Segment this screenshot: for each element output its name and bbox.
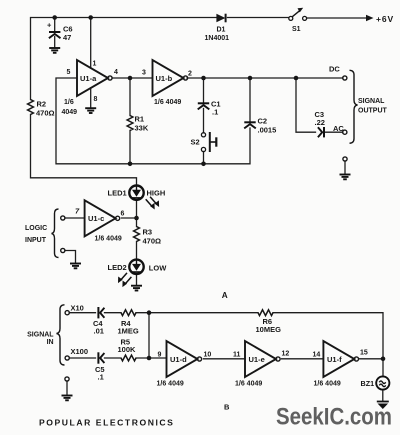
svg-text:INPUT: INPUT bbox=[25, 237, 47, 244]
wire: U1-a input feedback bbox=[56, 78, 130, 164]
svg-text:100K: 100K bbox=[118, 345, 137, 354]
resistor R4 bbox=[118, 310, 139, 336]
svg-text:10MEG: 10MEG bbox=[256, 325, 282, 334]
svg-text:1N4001: 1N4001 bbox=[205, 35, 230, 42]
node: C6 tap on rail bbox=[52, 15, 57, 20]
DC terminal bbox=[329, 65, 347, 81]
op-amp U1-e (inverter) bbox=[233, 341, 289, 388]
capacitor C5 bbox=[95, 352, 105, 381]
svg-text:LED2: LED2 bbox=[108, 263, 127, 272]
signal-in ground terminal bbox=[65, 377, 69, 381]
svg-text:A: A bbox=[222, 291, 228, 300]
switch S2 (pushbutton) bbox=[191, 132, 217, 152]
wire: rail diode-to-S1 segment bbox=[228, 17, 289, 19]
svg-text:LOW: LOW bbox=[149, 263, 167, 272]
wire: pin8 to ground bbox=[90, 88, 92, 108]
node: S2 bottom bbox=[201, 162, 206, 167]
svg-text:1/6 4049: 1/6 4049 bbox=[314, 381, 341, 388]
wire: U1-e out to U1-f bbox=[282, 358, 324, 360]
op-amp U1-b (inverter) bbox=[142, 60, 192, 106]
svg-text:R2: R2 bbox=[37, 100, 47, 109]
svg-text:1/6 4049: 1/6 4049 bbox=[154, 99, 181, 106]
wire: bottom node line R1 to S2 to C2 bbox=[130, 128, 250, 164]
ground (C6) bbox=[49, 48, 60, 53]
wire: U1-a out to U1-b in bbox=[112, 77, 153, 79]
wire: R1 column bbox=[129, 78, 131, 116]
node: AC tap bbox=[294, 76, 299, 81]
wire: node to R3 bbox=[136, 218, 138, 227]
op-amp U1-d (inverter) bbox=[157, 341, 212, 388]
svg-text:SeekIC.com: SeekIC.com bbox=[276, 404, 392, 431]
svg-text:2: 2 bbox=[188, 71, 192, 78]
capacitor C2 bbox=[244, 117, 276, 135]
ground (logic input) bbox=[70, 264, 81, 269]
node: R1 bottom bbox=[128, 162, 133, 167]
svg-text:1/6 4049: 1/6 4049 bbox=[95, 236, 122, 243]
wire: output ground stub bbox=[344, 161, 346, 174]
node: pin1 tap on rail bbox=[88, 15, 93, 20]
resistor R3 bbox=[134, 227, 161, 246]
svg-text:1/6 4049: 1/6 4049 bbox=[235, 381, 262, 388]
ground (signal in) bbox=[62, 396, 73, 401]
svg-text:10: 10 bbox=[204, 352, 212, 359]
node: R5 junction bbox=[147, 356, 152, 361]
output ground terminal bbox=[343, 157, 347, 161]
svg-text:1MEG: 1MEG bbox=[118, 327, 139, 336]
op-amp U1-c (inverter) bbox=[75, 200, 125, 242]
svg-text:9: 9 bbox=[158, 352, 162, 359]
svg-text:12: 12 bbox=[282, 351, 290, 358]
LED1 bbox=[108, 186, 166, 210]
svg-text:3: 3 bbox=[142, 70, 146, 77]
wire: BZ1 to ground bbox=[382, 390, 384, 402]
ground (BZ1) bbox=[377, 402, 389, 410]
ground (U1-a pin 8) bbox=[85, 108, 96, 113]
AC terminal bbox=[333, 124, 347, 134]
wire: C3 to AC terminal bbox=[325, 131, 343, 133]
svg-text:U1-c: U1-c bbox=[88, 214, 104, 223]
svg-text:S2: S2 bbox=[191, 138, 200, 147]
wire: LED1 bottom to node bbox=[136, 200, 138, 218]
svg-text:.1: .1 bbox=[212, 108, 218, 117]
capacitor C4 bbox=[93, 307, 104, 336]
svg-text:33K: 33K bbox=[135, 124, 149, 133]
LED2 bbox=[108, 260, 168, 288]
svg-text:6: 6 bbox=[121, 211, 125, 218]
wire: R5 to junction bbox=[136, 357, 167, 359]
svg-text:1/6: 1/6 bbox=[64, 99, 74, 106]
wire: U1-f out to BZ1 node bbox=[360, 358, 384, 360]
logic input terminal upper bbox=[61, 216, 65, 220]
svg-text:DC: DC bbox=[329, 65, 340, 74]
svg-text:5: 5 bbox=[67, 69, 71, 76]
capacitor C6 bbox=[47, 21, 73, 43]
resistor R2 bbox=[28, 100, 55, 118]
capacitor C1 bbox=[198, 100, 221, 117]
svg-text:15: 15 bbox=[360, 350, 368, 357]
wire: X100 row bbox=[69, 357, 95, 359]
+6V arrow bbox=[366, 14, 394, 24]
svg-text:+6V: +6V bbox=[376, 14, 394, 24]
buzzer BZ1 bbox=[361, 376, 390, 389]
svg-text:SIGNAL: SIGNAL bbox=[27, 332, 54, 339]
ground (output) bbox=[340, 175, 351, 180]
svg-text:470Ω: 470Ω bbox=[143, 237, 162, 246]
svg-text:AC: AC bbox=[333, 124, 344, 133]
resistor R6 bbox=[256, 310, 282, 334]
svg-text:B: B bbox=[224, 403, 230, 412]
wire: S2 bottom to node bbox=[203, 152, 205, 164]
svg-text:470Ω: 470Ω bbox=[36, 109, 55, 118]
svg-text:D1: D1 bbox=[217, 27, 226, 34]
svg-text:U1-d: U1-d bbox=[170, 355, 187, 364]
svg-text:HIGH: HIGH bbox=[147, 188, 166, 197]
wire: signal in X10 row bbox=[69, 312, 95, 314]
brace SIGNAL IN bbox=[27, 305, 64, 365]
wire: +6V top rail left segment bbox=[31, 18, 217, 100]
wire: U1-d out to U1-e bbox=[204, 358, 246, 360]
svg-text:X100: X100 bbox=[71, 347, 89, 356]
wire: LED2 to ground bbox=[136, 274, 138, 286]
wire: node to BZ1 bbox=[382, 359, 384, 377]
svg-text:8: 8 bbox=[94, 96, 98, 103]
wire: U1-c input bbox=[65, 217, 85, 219]
svg-text:.22: .22 bbox=[315, 118, 325, 127]
wire: C2 branch bbox=[249, 78, 251, 122]
node: U1-a output bbox=[128, 76, 133, 81]
wire: U1-b out main line to DC bbox=[187, 77, 343, 79]
capacitor C3 bbox=[315, 110, 325, 137]
wire: U1-c output to node bbox=[122, 217, 137, 219]
diode D1 bbox=[205, 14, 230, 42]
svg-text:S1: S1 bbox=[292, 26, 301, 33]
svg-text:BZ1: BZ1 bbox=[361, 379, 375, 388]
svg-text:U1-b: U1-b bbox=[156, 74, 173, 83]
svg-text:IN: IN bbox=[47, 339, 54, 346]
brace LOGIC INPUT bbox=[25, 209, 59, 258]
wire: C6 to ground bbox=[54, 37, 56, 48]
node: U1-c output bbox=[134, 216, 139, 221]
svg-text:4: 4 bbox=[114, 69, 118, 76]
svg-text:14: 14 bbox=[313, 352, 321, 359]
svg-text:.1: .1 bbox=[98, 373, 104, 382]
node: U1-f output bbox=[381, 357, 386, 362]
svg-text:1: 1 bbox=[93, 61, 97, 68]
logic input terminal lower bbox=[61, 248, 65, 252]
wire: signal-in ground terminal stub bbox=[66, 381, 68, 395]
resistor R1 bbox=[127, 115, 149, 133]
svg-text:U1-a: U1-a bbox=[80, 74, 97, 83]
wire: R3 to LED2 bbox=[136, 242, 138, 260]
node: C2 tap bbox=[248, 76, 253, 81]
svg-text:11: 11 bbox=[233, 352, 241, 359]
node: C1 tap bbox=[201, 76, 206, 81]
wire: R6 right to corner down bbox=[273, 313, 383, 359]
resistor R5 bbox=[118, 338, 137, 361]
X10 terminal bbox=[65, 304, 84, 315]
svg-text:LOGIC: LOGIC bbox=[25, 225, 47, 232]
brace SIGNAL OUTPUT bbox=[350, 70, 388, 143]
svg-text:.0015: .0015 bbox=[258, 126, 277, 135]
op-amp U1-a (inverter) bbox=[62, 60, 119, 116]
X100 terminal bbox=[65, 347, 88, 360]
svg-text:R1: R1 bbox=[135, 115, 145, 124]
switch S1 bbox=[289, 8, 307, 33]
wire: S1-to-arrow segment bbox=[307, 17, 366, 19]
svg-text:1/6 4049: 1/6 4049 bbox=[157, 381, 184, 388]
svg-text:.01: .01 bbox=[94, 327, 104, 336]
svg-text:LED1: LED1 bbox=[108, 188, 127, 197]
wire: R4 to node A line with R6 bbox=[136, 312, 258, 314]
svg-text:4049: 4049 bbox=[62, 109, 78, 116]
wire: C6 drop bbox=[54, 18, 56, 32]
svg-text:U1-f: U1-f bbox=[327, 355, 342, 364]
svg-text:R3: R3 bbox=[143, 228, 153, 237]
svg-text:OUTPUT: OUTPUT bbox=[358, 108, 388, 115]
wire: AC branch bbox=[296, 78, 316, 132]
svg-text:47: 47 bbox=[63, 33, 71, 42]
ground (LED2) bbox=[131, 286, 142, 291]
op-amp U1-f (inverter) bbox=[313, 341, 368, 388]
wire: R2 column bottom + feedback to LED1 bbox=[31, 115, 137, 186]
svg-text:X10: X10 bbox=[71, 304, 84, 313]
wire: C1 branch bbox=[203, 78, 205, 103]
svg-text:+: + bbox=[47, 21, 52, 30]
svg-text:SIGNAL: SIGNAL bbox=[358, 98, 385, 105]
wire: junction vertical bbox=[148, 313, 150, 358]
svg-text:POPULAR ELECTRONICS: POPULAR ELECTRONICS bbox=[39, 418, 174, 428]
wire: logic lower terminal to ground bbox=[65, 251, 76, 264]
node: R4/R6 junction bbox=[147, 310, 152, 315]
svg-text:U1-e: U1-e bbox=[249, 355, 265, 364]
wire: pin1 drop to U1-a bbox=[90, 18, 92, 69]
svg-text:C2: C2 bbox=[258, 117, 268, 126]
